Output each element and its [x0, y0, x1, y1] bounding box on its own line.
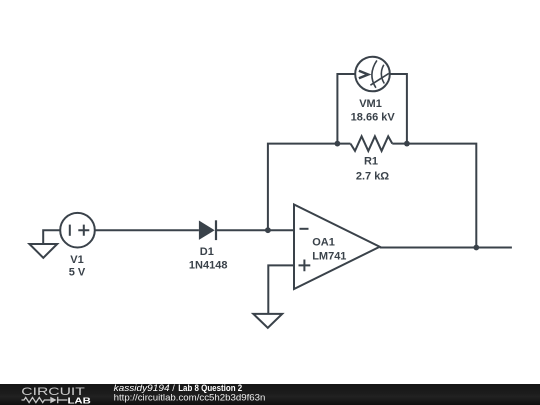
wire	[95, 229, 199, 231]
junction	[265, 227, 271, 233]
logo resistor squiggle	[22, 397, 51, 402]
ground (op-amp)	[253, 314, 282, 328]
voltage source V1	[60, 213, 95, 248]
wire	[392, 144, 476, 248]
svg-text:LAB: LAB	[68, 395, 91, 405]
plus input marker	[299, 260, 311, 272]
op-amp OA1	[294, 205, 380, 290]
wire	[216, 229, 294, 231]
junction	[335, 141, 341, 147]
wire	[337, 74, 355, 144]
minus input marker	[300, 228, 309, 230]
voltmeter VM1	[355, 57, 390, 92]
resistor R1	[351, 136, 393, 151]
wire	[268, 144, 351, 231]
logo diode	[50, 397, 67, 403]
wire	[390, 74, 407, 144]
footer bar	[0, 384, 540, 405]
junction	[473, 245, 479, 251]
svg-text:http://circuitlab.com/cc5h2b3d: http://circuitlab.com/cc5h2b3d9f63n	[114, 393, 266, 403]
ground (V1)	[29, 230, 60, 258]
junction	[404, 141, 410, 147]
wire (output)	[380, 247, 512, 249]
wire	[268, 265, 294, 314]
diode D1	[199, 220, 216, 240]
